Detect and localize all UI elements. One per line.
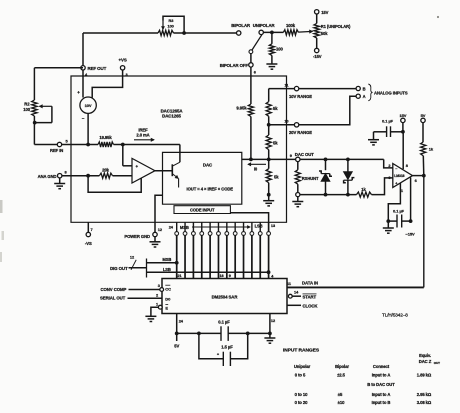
svg-text:Connect: Connect	[373, 364, 390, 369]
svg-text:OUT: OUT	[434, 361, 440, 365]
svg-text:REF OUT: REF OUT	[88, 66, 107, 71]
comparator pin 8 supply	[402, 132, 404, 169]
resistor 5k lower to ground	[266, 169, 271, 183]
wire 10V source bottom	[87, 113, 89, 144]
terminal BIPOLAR OFF pin 6	[249, 63, 253, 67]
svg-text:+VS: +VS	[119, 58, 127, 63]
capacitor 1.5 uF electrolytic	[199, 333, 223, 358]
wire MSB tap	[147, 262, 177, 264]
diode D2 schottky down	[347, 159, 349, 171]
svg-text:0.1 µF: 0.1 µF	[218, 319, 230, 324]
switch contact UNIPOLAR	[259, 30, 263, 34]
svg-text:CLOCK: CLOCK	[303, 303, 319, 308]
svg-text:9: 9	[229, 274, 231, 278]
digital input pin B5 (DAC pin 20)	[209, 222, 211, 231]
comparator pin 4 to -15V	[410, 178, 412, 222]
svg-text:+: +	[77, 90, 80, 95]
terminal 5V pullup	[421, 118, 425, 122]
svg-text:UNIPOLAR: UNIPOLAR	[253, 23, 276, 28]
svg-text:18: 18	[219, 274, 223, 278]
wire 1k to comparator pin 3	[372, 178, 393, 195]
diode D1 schottky up	[325, 159, 327, 170]
terminal +VS pin 3	[120, 66, 124, 70]
resistor 19.95k	[98, 142, 114, 147]
svg-text:1.5 µF: 1.5 µF	[221, 345, 233, 350]
digital input pin B6 (DAC pin 19)	[217, 222, 219, 231]
SAR DM2504 box	[162, 279, 287, 314]
bus bracket	[146, 259, 148, 278]
digital input pin B2 (DAC pin 23)	[184, 222, 186, 231]
svg-text:CONV COMP: CONV COMP	[101, 287, 127, 292]
wire REF OUT to R2	[34, 67, 83, 69]
svg-text:7: 7	[91, 227, 93, 232]
svg-text:ANA GND: ANA GND	[38, 174, 57, 179]
digital input pin B11 (DAC pin 14)	[259, 222, 261, 231]
terminal -15V	[315, 48, 319, 52]
lower rail to comparator	[300, 194, 357, 196]
ground at ANA GND	[59, 178, 61, 184]
svg-text:5k: 5k	[273, 106, 278, 111]
terminal input B	[356, 86, 360, 90]
svg-text:5k: 5k	[274, 175, 279, 180]
comparator output pin 6	[413, 175, 424, 177]
svg-text:BIPOLAR: BIPOLAR	[231, 23, 251, 28]
terminal REF OUT pin 4	[81, 66, 85, 70]
svg-text:DAC Z: DAC Z	[419, 359, 432, 364]
svg-text:Input to A: Input to A	[372, 373, 391, 378]
resistor R3 100 trimmer	[158, 30, 174, 35]
svg-text:50k: 50k	[321, 31, 328, 36]
wire DAC OUT rail	[300, 158, 384, 160]
junction IREF node	[121, 143, 125, 147]
junction 9.95k at I0 line	[249, 158, 253, 162]
svg-text:TL/H/5342–8: TL/H/5342–8	[382, 313, 408, 318]
digital input pin B3 (DAC pin 22)	[192, 222, 194, 231]
I0 label and arrow	[248, 163, 266, 165]
digital input pin B9 (DAC pin 16)	[243, 222, 245, 231]
wire I0 line DAC to DAC OUT	[242, 158, 296, 160]
terminal ANA GND pin 8	[58, 174, 62, 178]
svg-text:15V: 15V	[399, 113, 406, 118]
digital input pin B7 (DAC pin 18)	[226, 222, 228, 231]
potentiometer R1 (UNIPOLAR) 50k	[316, 14, 318, 23]
resistor 1k to comparator	[357, 192, 372, 197]
resistor 100k	[283, 30, 298, 35]
svg-text:START: START	[303, 294, 317, 299]
resistor 1k pullup	[422, 123, 424, 142]
junction R2 bottom	[33, 121, 37, 125]
wire 20k to op-amp - input	[113, 175, 133, 177]
svg-text:INPUT RANGES: INPUT RANGES	[283, 348, 320, 354]
5V rail under SAR	[177, 332, 221, 334]
DAC block box	[163, 152, 242, 204]
svg-text:POWER GND: POWER GND	[124, 234, 150, 239]
wire 20V range to input A	[299, 96, 356, 125]
svg-text:Bipolar: Bipolar	[335, 364, 349, 369]
svg-text:DATA IN: DATA IN	[302, 281, 318, 286]
svg-text:2.0 mA: 2.0 mA	[136, 133, 149, 138]
switch blade	[252, 35, 262, 50]
junction ANA GND branch	[86, 174, 90, 178]
svg-text:±2.5: ±2.5	[337, 373, 346, 378]
junction 100 ohm tap	[270, 31, 274, 35]
analog inputs bracket	[368, 84, 372, 101]
terminal RSHUNT bottom	[296, 193, 300, 197]
5V stub	[176, 333, 178, 341]
wire REF IN line	[34, 144, 57, 146]
wire LSB tap	[147, 271, 269, 273]
transistor Q1 emitter	[172, 174, 178, 179]
switch contact BIPOLAR	[237, 31, 241, 35]
svg-text:19.95k: 19.95k	[99, 135, 112, 140]
ground 15V bypass	[373, 132, 375, 140]
svg-text:5V: 5V	[421, 113, 426, 118]
svg-text:CODE INPUT: CODE INPUT	[190, 208, 215, 213]
digital input pin B1 (DAC pin 24)	[176, 222, 178, 231]
wire 10V range line	[269, 88, 295, 90]
svg-text:2.95 kΩ: 2.95 kΩ	[417, 392, 432, 397]
comparator pin 1	[388, 183, 400, 221]
terminal DAC OUT pin 9	[296, 157, 300, 161]
digital input pin B8 (DAC pin 17)	[234, 222, 236, 231]
junction internal ground rail	[267, 193, 271, 197]
resistor 9.95k bipolar offset	[248, 104, 253, 117]
wire IREF node to op-amp + input	[122, 145, 124, 166]
svg-text:3.08 kΩ: 3.08 kΩ	[417, 400, 432, 405]
wire unipolar contact to 100k	[263, 31, 283, 33]
wire 10V source top-right to +VS	[92, 70, 122, 98]
wire POWER GND to DAC block	[155, 195, 163, 232]
svg-text:Input to B: Input to B	[372, 400, 391, 405]
svg-text:DIG OUT: DIG OUT	[110, 266, 128, 271]
DAC1265 package outline box	[71, 76, 287, 222]
svg-text:1.89 kΩ: 1.89 kΩ	[417, 373, 432, 378]
svg-text:-VS: -VS	[85, 241, 92, 246]
svg-text:0 to 20: 0 to 20	[295, 400, 308, 405]
svg-text:5k: 5k	[273, 140, 278, 145]
wire 20V range line	[269, 124, 295, 126]
wire R3 to bipolar switch	[174, 32, 185, 34]
svg-text:ANALOG INPUTS: ANALOG INPUTS	[374, 90, 408, 95]
wiper of R2	[39, 105, 52, 107]
svg-text:20k: 20k	[102, 167, 109, 172]
svg-text:±5: ±5	[338, 392, 343, 397]
svg-text:0.1 µF: 0.1 µF	[393, 209, 405, 214]
resistor 5k upper	[268, 89, 270, 102]
comparator LM318	[393, 164, 413, 188]
svg-text:CC: CC	[165, 286, 171, 291]
terminal POWER GND pin 12	[153, 232, 157, 236]
svg-text:LSB: LSB	[255, 224, 263, 229]
wire ANA GND to op-amp bottom	[88, 176, 141, 193]
terminal 15V	[315, 10, 319, 14]
capacitor 0.1 uF at SAR	[220, 326, 222, 341]
terminal -VS pin 7	[87, 222, 89, 232]
svg-text:10V RANGE: 10V RANGE	[289, 94, 312, 99]
wire IREF to DAC collector	[114, 144, 180, 146]
svg-text:−: −	[395, 167, 397, 171]
svg-text:100: 100	[23, 107, 30, 112]
svg-text:DAC: DAC	[203, 163, 213, 168]
svg-text:9.95k: 9.95k	[236, 106, 247, 111]
junction I0 node	[267, 158, 271, 162]
svg-text:LM318: LM318	[394, 174, 404, 178]
svg-text:0 to 5: 0 to 5	[295, 373, 306, 378]
resistor 100 to ground	[271, 32, 273, 43]
wire CODE INPUT to LSB pin	[230, 213, 268, 232]
svg-text:IOUT = 4 × IREF × CODE: IOUT = 4 × IREF × CODE	[187, 187, 234, 192]
svg-text:10V: 10V	[85, 103, 92, 108]
CODE INPUT box	[174, 206, 230, 214]
svg-text:RSHUNT: RSHUNT	[302, 176, 319, 181]
terminal input A	[356, 94, 360, 98]
svg-text:21: 21	[177, 274, 181, 278]
svg-text:D0: D0	[165, 296, 171, 301]
op-amp A1 triangle	[132, 158, 155, 183]
wire 100k to R1 wiper	[299, 30, 313, 33]
scan smudge artifacts	[0, 200, 3, 213]
wire top rail from REF OUT to R3	[83, 32, 158, 34]
bus slash 12	[131, 260, 136, 270]
svg-text:MSB: MSB	[162, 257, 171, 262]
resistor R2 100 trim pot	[32, 100, 37, 116]
resistor 5k middle	[266, 135, 271, 150]
svg-text:LSB: LSB	[163, 267, 171, 272]
digital input pin B12 (DAC pin 13)	[268, 222, 270, 231]
terminal 15V comparator supply	[401, 118, 405, 122]
DIG OUT bus wire	[129, 267, 147, 269]
svg-text:E: E	[165, 306, 168, 311]
svg-text:15V: 15V	[321, 10, 328, 15]
svg-text:SERIAL OUT: SERIAL OUT	[100, 296, 126, 301]
wire ANA GND to 20k	[62, 175, 100, 177]
digital input pin B10 (DAC pin 15)	[251, 222, 253, 231]
svg-text:0.1 µF: 0.1 µF	[382, 119, 394, 124]
ground at POWER GND	[154, 237, 156, 242]
wire op-amp output to transistor base	[155, 170, 172, 172]
svg-text:100: 100	[276, 46, 283, 51]
svg-text:−: −	[82, 116, 85, 121]
ground below RSHUNT	[297, 197, 299, 202]
svg-text:−15V: −15V	[406, 232, 416, 237]
svg-text:A: A	[363, 94, 366, 99]
resistor 20k	[99, 173, 112, 178]
voltage source 10V reference	[80, 97, 96, 113]
svg-text:100: 100	[168, 24, 174, 29]
transistor Q1 base bar	[171, 164, 173, 176]
svg-text:DM2504 SAR: DM2504 SAR	[212, 294, 239, 299]
terminal 10V RANGE pin 11	[294, 86, 298, 90]
svg-text:Unipolar: Unipolar	[294, 364, 311, 369]
svg-text:REF IN: REF IN	[50, 148, 63, 153]
svg-text:+: +	[395, 182, 397, 186]
svg-text:B to DAC OUT: B to DAC OUT	[367, 382, 395, 387]
svg-text:100k: 100k	[286, 23, 296, 28]
wire comparator output down to DATA IN	[423, 176, 425, 288]
resistor RSHUNT	[297, 162, 299, 170]
transistor Q1 collector	[172, 162, 180, 166]
svg-text:-15V: -15V	[313, 54, 322, 59]
svg-text:20V RANGE: 20V RANGE	[289, 130, 312, 135]
ground below 100 ohm	[271, 55, 273, 64]
wire bipolar off into package	[250, 67, 252, 104]
svg-text:DAC1265: DAC1265	[162, 114, 181, 119]
svg-text:10: 10	[284, 119, 288, 124]
svg-text:B: B	[363, 86, 366, 91]
svg-text:BIPOLAR OFF: BIPOLAR OFF	[220, 63, 249, 68]
ground -15V bypass	[387, 221, 389, 228]
terminal 20V RANGE pin 10	[294, 123, 298, 127]
svg-text:Equiv.: Equiv.	[419, 353, 431, 358]
junction R3 right	[182, 31, 186, 35]
svg-text:±10: ±10	[338, 400, 345, 405]
wire REF OUT vertical	[82, 33, 84, 66]
digital input pin B4 (DAC pin 21)	[201, 222, 203, 231]
svg-text:Input to A: Input to A	[372, 392, 391, 397]
ground internal 5k chain	[268, 195, 270, 201]
svg-text:R1 (UNIPOLAR): R1 (UNIPOLAR)	[321, 24, 351, 29]
wire CLOCK	[287, 304, 301, 306]
wire 10V range to input B	[299, 88, 356, 90]
wire rail to comparator pin 2	[384, 159, 393, 168]
svg-text:5V: 5V	[174, 343, 179, 348]
svg-text:0 to 10: 0 to 10	[295, 392, 308, 397]
svg-text:R2: R2	[24, 102, 30, 107]
junction 10V source bottom	[86, 143, 90, 147]
terminal REF IN pin 5	[57, 142, 61, 146]
junction 20V range	[267, 123, 271, 127]
svg-text:DAC OUT: DAC OUT	[295, 152, 314, 157]
